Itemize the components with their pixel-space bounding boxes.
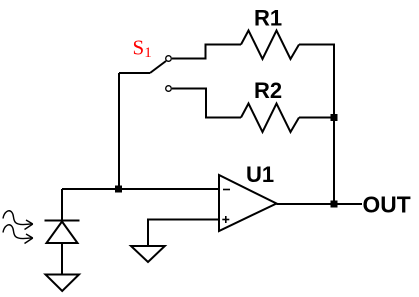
svg-text:OUT: OUT	[363, 192, 411, 218]
svg-text:S: S	[133, 36, 145, 60]
svg-text:1: 1	[144, 45, 152, 61]
svg-text:U1: U1	[246, 162, 274, 187]
svg-text:R2: R2	[254, 78, 282, 103]
svg-text:R1: R1	[254, 6, 282, 31]
